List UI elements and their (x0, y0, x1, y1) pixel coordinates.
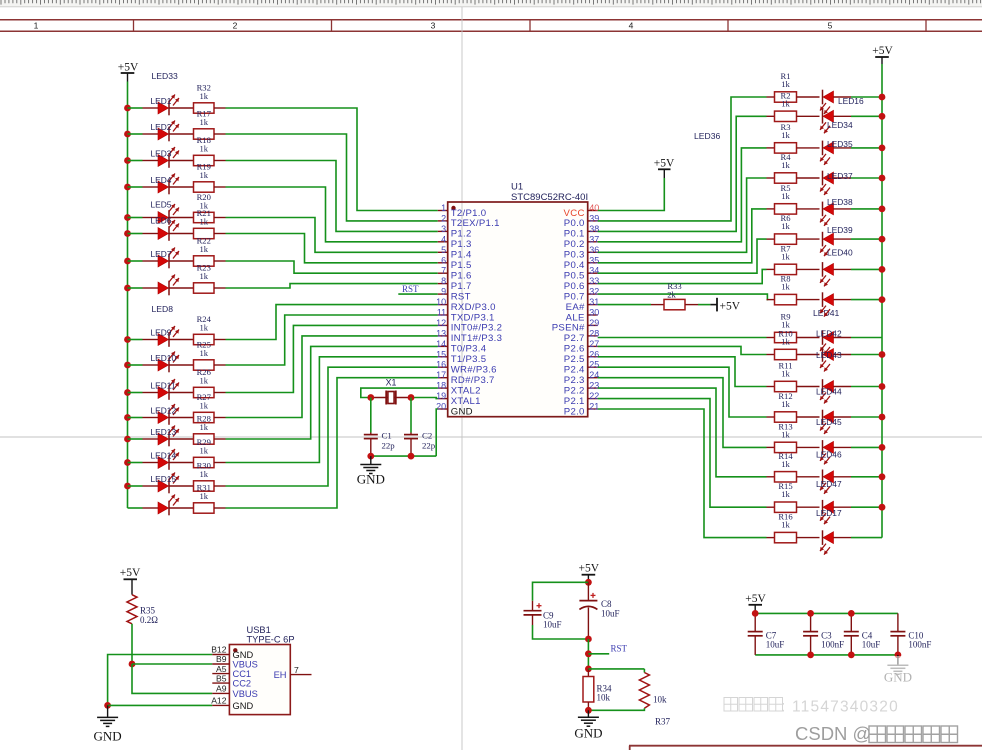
power +5V (reset) (579, 563, 600, 583)
svg-text:22: 22 (589, 391, 599, 401)
svg-text:P0.2: P0.2 (564, 239, 585, 250)
watermark capsule (858, 656, 936, 692)
LED LED38 (820, 197, 853, 226)
svg-text:1: 1 (441, 203, 446, 213)
wire LED to right rail (851, 147, 882, 149)
resistor R26 1k (169, 367, 226, 398)
wire U1 pin 21 to right row 16 (598, 409, 767, 538)
node X1 right junction (408, 394, 415, 401)
wire U1 pin 20 GND down (436, 409, 438, 456)
svg-text:36: 36 (589, 245, 599, 255)
power +5V (VCC pin 40) (654, 158, 675, 178)
resistor R32 1k (169, 82, 226, 113)
svg-text:P0.5: P0.5 (564, 271, 585, 282)
wire +5V rail to LED anode (128, 339, 143, 341)
power +5V (R33) (698, 298, 741, 313)
svg-text:RD#/P3.7: RD#/P3.7 (451, 375, 495, 386)
LED LED39 (820, 225, 853, 256)
LED LED47 (816, 470, 851, 494)
LED LED11 (143, 379, 180, 400)
svg-text:RST: RST (451, 291, 471, 302)
svg-text:1k: 1k (781, 369, 790, 379)
svg-text:22p: 22p (382, 440, 396, 450)
node VBUS junction (129, 661, 136, 668)
wire R19 to U1 pin 4 (226, 187, 438, 242)
U1 pin 14 T0/P3.4 (436, 339, 487, 355)
resistor R30 1k (169, 460, 226, 491)
LED LED10 (143, 352, 180, 373)
wire LED to right rail (851, 268, 882, 270)
svg-text:P1.3: P1.3 (451, 239, 472, 250)
svg-text:CC1: CC1 (233, 669, 252, 679)
node left row 7 junction (124, 258, 131, 265)
svg-text:1k: 1k (199, 348, 208, 358)
wire U1 pin 24 to right row 13 (598, 378, 767, 448)
resistor R21 1k (169, 208, 226, 239)
svg-text:1k: 1k (781, 79, 790, 89)
U1 pin 25 P2.4 (564, 360, 599, 376)
resistor R28 1k (169, 413, 226, 444)
LED LED43 (816, 347, 851, 371)
USB1 pin A9 VBUS (212, 684, 258, 699)
wire LED to right rail (851, 506, 882, 508)
U1 pin 10 RXD/P3.0 (436, 297, 496, 313)
node C8 bottom junction (585, 636, 592, 643)
node right rail junction (879, 504, 886, 511)
LED LED17 (816, 500, 851, 524)
resistor R25 1k (169, 339, 226, 370)
svg-text:P1.7: P1.7 (451, 281, 472, 292)
resistor R22 1k (169, 235, 226, 266)
svg-text:ALE: ALE (566, 312, 585, 323)
svg-text:LED35: LED35 (827, 139, 853, 149)
svg-text:LED36: LED36 (694, 131, 720, 141)
wire +5V rail to LED anode (128, 364, 143, 366)
svg-text:1k: 1k (781, 337, 790, 347)
svg-text:26: 26 (589, 349, 599, 359)
svg-text:25: 25 (589, 360, 599, 370)
wire U1 pin 37 to right row 3 (598, 148, 767, 242)
wire +5V rail to LED anode (128, 233, 143, 235)
svg-text:1k: 1k (781, 399, 790, 409)
capacitor C1 22p (364, 398, 395, 457)
wire +5V rail to LED anode (128, 485, 143, 487)
U1 pin 12 INT0#/P3.2 (436, 318, 502, 334)
wire LED to right rail (851, 177, 882, 179)
U1 pin 35 P0.4 (564, 255, 599, 271)
net label RST (reset node) (585, 643, 628, 657)
wire crystal ground rail (371, 455, 436, 457)
wire to R37 top (588, 668, 644, 670)
capacitor C2 22p (404, 398, 436, 457)
resistor R4 1k (767, 152, 820, 183)
node left row 3 junction (124, 157, 131, 164)
svg-text:1k: 1k (781, 221, 790, 231)
svg-text:1k: 1k (199, 244, 208, 254)
svg-text:GND: GND (233, 650, 254, 660)
wire VBUS B9 (132, 663, 212, 665)
svg-text:INT1#/P3.3: INT1#/P3.3 (451, 333, 503, 344)
LED LED3 (143, 147, 180, 168)
resistor R24 1k (169, 314, 226, 345)
U1 pin 6 P1.5 (438, 255, 472, 271)
svg-text:2: 2 (233, 21, 238, 31)
svg-text:1: 1 (34, 21, 39, 31)
svg-text:TYPE-C 6P: TYPE-C 6P (247, 634, 295, 644)
svg-text:22p: 22p (422, 440, 436, 450)
U1 pin 4 P1.3 (438, 234, 472, 250)
node C2 bottom junction (408, 453, 415, 460)
svg-text:20: 20 (436, 402, 446, 412)
svg-text:PSEN#: PSEN# (552, 323, 585, 334)
svg-text:2k: 2k (667, 289, 676, 299)
U1 pin 21 P2.0 (564, 402, 599, 418)
svg-text:1k: 1k (781, 520, 790, 530)
wire U1 pin 26 to right row 11 (598, 357, 767, 387)
sheet ruler (0, 0, 982, 7)
svg-text:P2.3: P2.3 (564, 375, 585, 386)
U1 pin 24 P2.3 (564, 370, 599, 386)
svg-text:10uF: 10uF (766, 640, 785, 650)
U1 pin 29 PSEN# (552, 318, 599, 334)
svg-text:P0.7: P0.7 (564, 291, 585, 302)
svg-text:+5V: +5V (745, 593, 766, 605)
wire +5V rail to LED anode (128, 133, 143, 135)
wire right +5V rail (881, 64, 883, 538)
node right rail junction (879, 351, 886, 358)
svg-text:TXD/P3.1: TXD/P3.1 (451, 312, 495, 323)
svg-text:1k: 1k (199, 271, 208, 281)
U1 pin 20 GND (436, 402, 473, 418)
svg-text:LED13: LED13 (151, 427, 177, 437)
resistor R29 1k (169, 437, 226, 468)
resistor R10 1k (767, 329, 820, 360)
svg-text:LED12: LED12 (151, 405, 177, 415)
USB1 pin A12 GND (211, 696, 253, 711)
svg-text:A5: A5 (216, 664, 227, 674)
U1 pin 40 VCC (564, 203, 600, 219)
capacitor C8 10uF (579, 582, 619, 639)
svg-text:LED44: LED44 (816, 387, 842, 397)
svg-text:LED11: LED11 (151, 380, 176, 390)
LED LED37 (820, 171, 853, 195)
svg-text:T1/P3.5: T1/P3.5 (451, 354, 487, 365)
resistor R33 2k (651, 281, 698, 310)
wire +5V rail to LED anode (128, 507, 143, 509)
LED LED9 (143, 326, 180, 347)
wire U1 pin 31 EA# to R33 (598, 304, 651, 306)
wire GND A12 (108, 704, 213, 706)
node right rail junction (879, 145, 886, 152)
svg-text:B5: B5 (216, 673, 227, 683)
node left row 16 junction (0, 0, 1, 1)
LED LED5 (143, 200, 180, 225)
LED LED1 (143, 95, 180, 116)
U1 pin 16 WR#/P3.6 (436, 360, 497, 376)
resistor R7 1k (767, 243, 820, 274)
wire R28 to U1 pin 14 (226, 346, 438, 439)
svg-text:1k: 1k (199, 400, 208, 410)
svg-text:LED45: LED45 (816, 417, 842, 427)
wire R25 to U1 pin 11 (226, 315, 438, 365)
svg-text:P2.1: P2.1 (564, 396, 585, 407)
svg-text:LED39: LED39 (827, 225, 853, 235)
svg-text:USB1: USB1 (247, 625, 271, 635)
svg-text:34: 34 (589, 266, 599, 276)
svg-text:VBUS: VBUS (233, 689, 258, 699)
svg-text:1k: 1k (199, 375, 208, 385)
node reset +5V junction (585, 579, 592, 586)
LED LED45 (816, 410, 851, 434)
LED LED6 (143, 216, 180, 241)
svg-text:P0.1: P0.1 (564, 229, 585, 240)
resistor R19 1k (169, 161, 226, 192)
U1 pin 19 XTAL1 (436, 391, 481, 407)
U1 pin 8 P1.7 (438, 276, 472, 292)
svg-text:16: 16 (436, 360, 446, 370)
svg-text:LED3: LED3 (151, 148, 172, 158)
svg-text:T2EX/P1.1: T2EX/P1.1 (451, 218, 500, 229)
svg-text:P2.2: P2.2 (564, 385, 585, 396)
LED LED42 (816, 329, 851, 355)
USB1 pin 7 EH (274, 665, 312, 680)
LED LED12 (143, 404, 180, 425)
svg-text:C2: C2 (422, 430, 432, 440)
wire +5V rail to LED anode (128, 462, 143, 464)
svg-text:P1.4: P1.4 (451, 250, 472, 261)
svg-text:1k: 1k (781, 191, 790, 201)
capacitor C7 10uF (748, 613, 785, 655)
svg-text:LED10: LED10 (151, 353, 177, 363)
svg-text:LED46: LED46 (816, 449, 842, 459)
svg-text:VBUS: VBUS (233, 660, 258, 670)
resistor R6 1k (767, 213, 820, 244)
svg-text:7: 7 (441, 266, 446, 276)
svg-text:XTAL2: XTAL2 (451, 385, 481, 396)
wire LED to right rail (851, 446, 882, 448)
svg-text:5: 5 (441, 245, 446, 255)
svg-text:GND: GND (233, 701, 254, 711)
wire decoupling top rail (755, 612, 898, 614)
node left row 15 junction (124, 483, 131, 490)
resistor R15 1k (767, 481, 820, 512)
USB1 pin B12 GND (211, 645, 253, 660)
wire U1 pin 40 VCC to +5V (598, 178, 665, 211)
svg-text:17: 17 (436, 370, 446, 380)
wire R26 to U1 pin 12 (226, 325, 438, 392)
wire LED to right rail (851, 208, 882, 210)
svg-text:P2.6: P2.6 (564, 344, 585, 355)
U1 pin 11 TXD/P3.1 (437, 308, 495, 324)
U1 pin 13 INT1#/P3.3 (436, 328, 502, 344)
label LED33 (152, 71, 178, 81)
svg-text:B12: B12 (211, 645, 227, 655)
node right rail junction (879, 94, 886, 101)
svg-text:LED34: LED34 (827, 120, 853, 130)
svg-text:4: 4 (441, 234, 446, 244)
node right rail junction (879, 444, 886, 451)
svg-text:LED4: LED4 (151, 175, 172, 185)
node right rail junction (879, 266, 886, 273)
resistor R2 1k (767, 90, 820, 121)
svg-text:T0/P3.4: T0/P3.4 (451, 344, 487, 355)
LED LED15 (143, 473, 180, 494)
svg-text:STC89C52RC-40I: STC89C52RC-40I (511, 192, 588, 203)
wire R37 bottom (588, 708, 644, 710)
connector USB1 TYPE-C 6P (229, 625, 294, 715)
resistor R35 0.2ohm (zigzag) (127, 595, 158, 625)
resistor R16 1k (767, 512, 820, 543)
U1 pin 32 P0.7 (564, 287, 599, 303)
U1 pin 39 P0.0 (564, 213, 599, 229)
svg-text:INT0#/P3.2: INT0#/P3.2 (451, 323, 503, 334)
node R34 top junction (585, 666, 592, 673)
wire U1 pin 23 to right row 14 (598, 388, 767, 477)
wire U1 pin 19 XTAL1 to X1 (411, 398, 438, 399)
svg-text:40: 40 (589, 203, 599, 213)
svg-text:21: 21 (589, 402, 599, 412)
wire LED to right rail (851, 337, 882, 339)
U1 pin 27 P2.6 (564, 339, 599, 355)
svg-text:LED9: LED9 (151, 327, 172, 337)
power +5V (right rail) (872, 45, 893, 64)
resistor R20 1k (169, 192, 226, 223)
resistor R17 1k (169, 108, 226, 139)
svg-text:P2.7: P2.7 (564, 333, 585, 344)
U1 pin 23 P2.2 (564, 381, 599, 397)
svg-text:29: 29 (589, 318, 599, 328)
node decoupling junctions (752, 610, 902, 658)
svg-text:RXD/P3.0: RXD/P3.0 (451, 302, 496, 313)
LED (left row, unlabeled) (143, 275, 180, 296)
svg-text:38: 38 (589, 224, 599, 234)
power +5V (USB R35) (120, 567, 141, 595)
resistor R37 10k (zigzag) (639, 669, 670, 727)
svg-text:1k: 1k (781, 251, 790, 261)
LED LED14 (143, 449, 180, 470)
resistor R27 1k (169, 392, 226, 423)
svg-text:GND: GND (451, 406, 473, 417)
svg-text:32: 32 (589, 287, 599, 297)
svg-text:+5V: +5V (579, 563, 600, 575)
ground (reset) (574, 710, 602, 740)
svg-text:LED5: LED5 (151, 200, 172, 210)
node C1 bottom junction (367, 453, 374, 460)
USB1 pin B9 VBUS (212, 654, 258, 669)
wire +5V rail to LED anode (128, 438, 143, 440)
svg-text:1k: 1k (199, 117, 208, 127)
node X1 left junction (367, 394, 374, 401)
U1 pin 36 P0.3 (564, 245, 599, 261)
svg-text:10uF: 10uF (862, 640, 881, 650)
wire +5V rail to LED anode (128, 217, 143, 219)
U1 pin 28 P2.7 (564, 328, 599, 344)
svg-text:2: 2 (441, 213, 446, 223)
svg-text:30: 30 (589, 308, 599, 318)
svg-text:12: 12 (436, 318, 446, 328)
svg-text:15: 15 (436, 349, 446, 359)
wire U1 pin 33 to right row 7 (598, 269, 767, 283)
wire U1 pin 34 to right row 6 (598, 239, 767, 273)
USB1 pin B5 CC2 (212, 673, 251, 688)
svg-text:35: 35 (589, 255, 599, 265)
svg-text:1k: 1k (199, 216, 208, 226)
svg-text:14: 14 (436, 339, 446, 349)
node left row 13 junction (124, 436, 131, 443)
svg-text:33: 33 (589, 276, 599, 286)
wire R18 to U1 pin 3 (226, 161, 438, 232)
resistor R12 1k (767, 391, 820, 422)
svg-text:LED38: LED38 (827, 197, 853, 207)
U1 pin 33 P0.6 (564, 276, 599, 292)
svg-text:R37: R37 (655, 716, 671, 726)
LED LED13 (143, 426, 180, 447)
svg-text:LED47: LED47 (816, 479, 842, 489)
capacitor C3 100nF (803, 613, 844, 655)
svg-text:LED43: LED43 (816, 350, 842, 360)
wire U1 pin 28 to right row 9 (598, 337, 767, 339)
resistor R11 1k (767, 361, 820, 392)
wire R31 to U1 pin 17 (226, 378, 438, 508)
svg-text:P0.3: P0.3 (564, 250, 585, 261)
net label RST (U1 pin 9) (398, 284, 437, 294)
svg-text:1k: 1k (781, 459, 790, 469)
wire LED to right rail (851, 238, 882, 240)
U1 pin 37 P0.2 (564, 234, 599, 250)
node right rail junction (0, 0, 1, 1)
wire LED to right rail (851, 354, 882, 356)
resistor R31 1k (169, 482, 226, 513)
svg-text:T2/P1.0: T2/P1.0 (451, 208, 487, 219)
wire VBUS A9 (132, 664, 212, 693)
sheet bottom border (629, 746, 982, 750)
resistor R8 1k (767, 274, 820, 305)
U1 pin 17 RD#/P3.7 (436, 370, 495, 386)
IC U1 STC89C52RC-40I microcontroller body (448, 182, 588, 417)
svg-text:LED37: LED37 (827, 171, 853, 181)
svg-text:10uF: 10uF (601, 609, 620, 619)
svg-text:+5V: +5V (720, 300, 741, 312)
watermark CSDN (795, 723, 958, 744)
svg-text:3: 3 (431, 21, 436, 31)
svg-text:LED2: LED2 (151, 122, 172, 132)
svg-text:+5V: +5V (120, 567, 141, 579)
svg-text:8: 8 (441, 276, 446, 286)
resistor R23 1k (169, 262, 226, 293)
svg-text:0.2Ω: 0.2Ω (140, 615, 158, 625)
svg-text:39: 39 (589, 213, 599, 223)
node left row 6 junction (124, 230, 131, 237)
svg-text:P1.6: P1.6 (451, 271, 472, 282)
svg-text:LED8: LED8 (152, 304, 174, 314)
svg-text:24: 24 (589, 370, 599, 380)
svg-text:CC2: CC2 (233, 679, 252, 689)
ground (decoupling) (884, 655, 912, 685)
U1 pin 26 P2.5 (564, 349, 599, 365)
wire U1 pin 32 to right row 8 (598, 294, 768, 300)
node left row 5 junction (124, 214, 131, 221)
wire R20 to U1 pin 5 (226, 218, 438, 253)
svg-text:27: 27 (589, 339, 599, 349)
svg-text:1k: 1k (199, 91, 208, 101)
wire left +5V rail (127, 82, 129, 509)
svg-text:LED15: LED15 (151, 474, 177, 484)
svg-text:37: 37 (589, 234, 599, 244)
USB1 pin A5 CC1 (212, 664, 251, 679)
svg-text:1k: 1k (781, 429, 790, 439)
svg-text:GND: GND (357, 471, 385, 486)
wire LED to right rail (851, 299, 882, 301)
